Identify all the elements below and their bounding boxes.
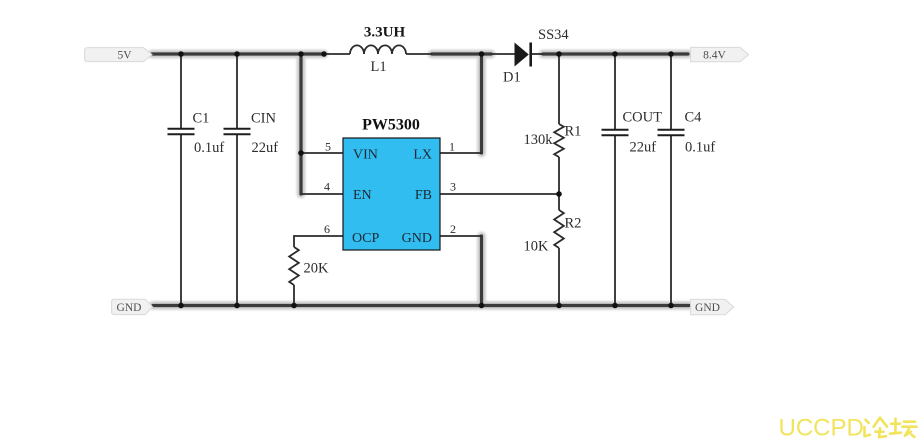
svg-text:L1: L1 <box>371 59 387 75</box>
svg-text:VIN: VIN <box>353 148 378 163</box>
svg-text:6: 6 <box>324 222 330 236</box>
svg-text:GND: GND <box>117 302 142 314</box>
svg-text:FB: FB <box>415 188 432 203</box>
svg-text:COUT: COUT <box>623 110 663 126</box>
svg-text:EN: EN <box>353 188 372 203</box>
svg-text:5: 5 <box>325 140 331 154</box>
svg-text:8.4V: 8.4V <box>703 49 726 61</box>
svg-text:CIN: CIN <box>251 111 277 127</box>
svg-text:10K: 10K <box>524 239 550 255</box>
svg-text:GND: GND <box>695 302 720 314</box>
svg-text:GND: GND <box>402 231 432 246</box>
svg-text:3.3UH: 3.3UH <box>364 25 406 41</box>
svg-text:0.1uf: 0.1uf <box>194 140 224 156</box>
svg-text:5V: 5V <box>117 49 132 61</box>
svg-text:C1: C1 <box>193 111 210 127</box>
svg-text:3: 3 <box>450 180 456 194</box>
svg-text:0.1uf: 0.1uf <box>685 140 715 156</box>
svg-text:PW5300: PW5300 <box>362 117 420 134</box>
svg-text:R1: R1 <box>565 124 582 140</box>
svg-text:C4: C4 <box>685 110 703 126</box>
svg-text:22uf: 22uf <box>630 140 657 156</box>
svg-text:4: 4 <box>324 180 330 194</box>
svg-text:20K: 20K <box>304 261 330 277</box>
svg-text:UCCPD: UCCPD <box>779 415 864 442</box>
svg-text:LX: LX <box>413 148 432 163</box>
svg-text:R2: R2 <box>565 216 582 232</box>
svg-text:22uf: 22uf <box>252 140 279 156</box>
svg-text:130k: 130k <box>524 132 554 148</box>
svg-text:OCP: OCP <box>352 231 379 246</box>
svg-text:1: 1 <box>449 140 455 154</box>
svg-text:D1: D1 <box>503 70 521 86</box>
svg-text:2: 2 <box>450 222 456 236</box>
svg-text:SS34: SS34 <box>538 27 569 43</box>
